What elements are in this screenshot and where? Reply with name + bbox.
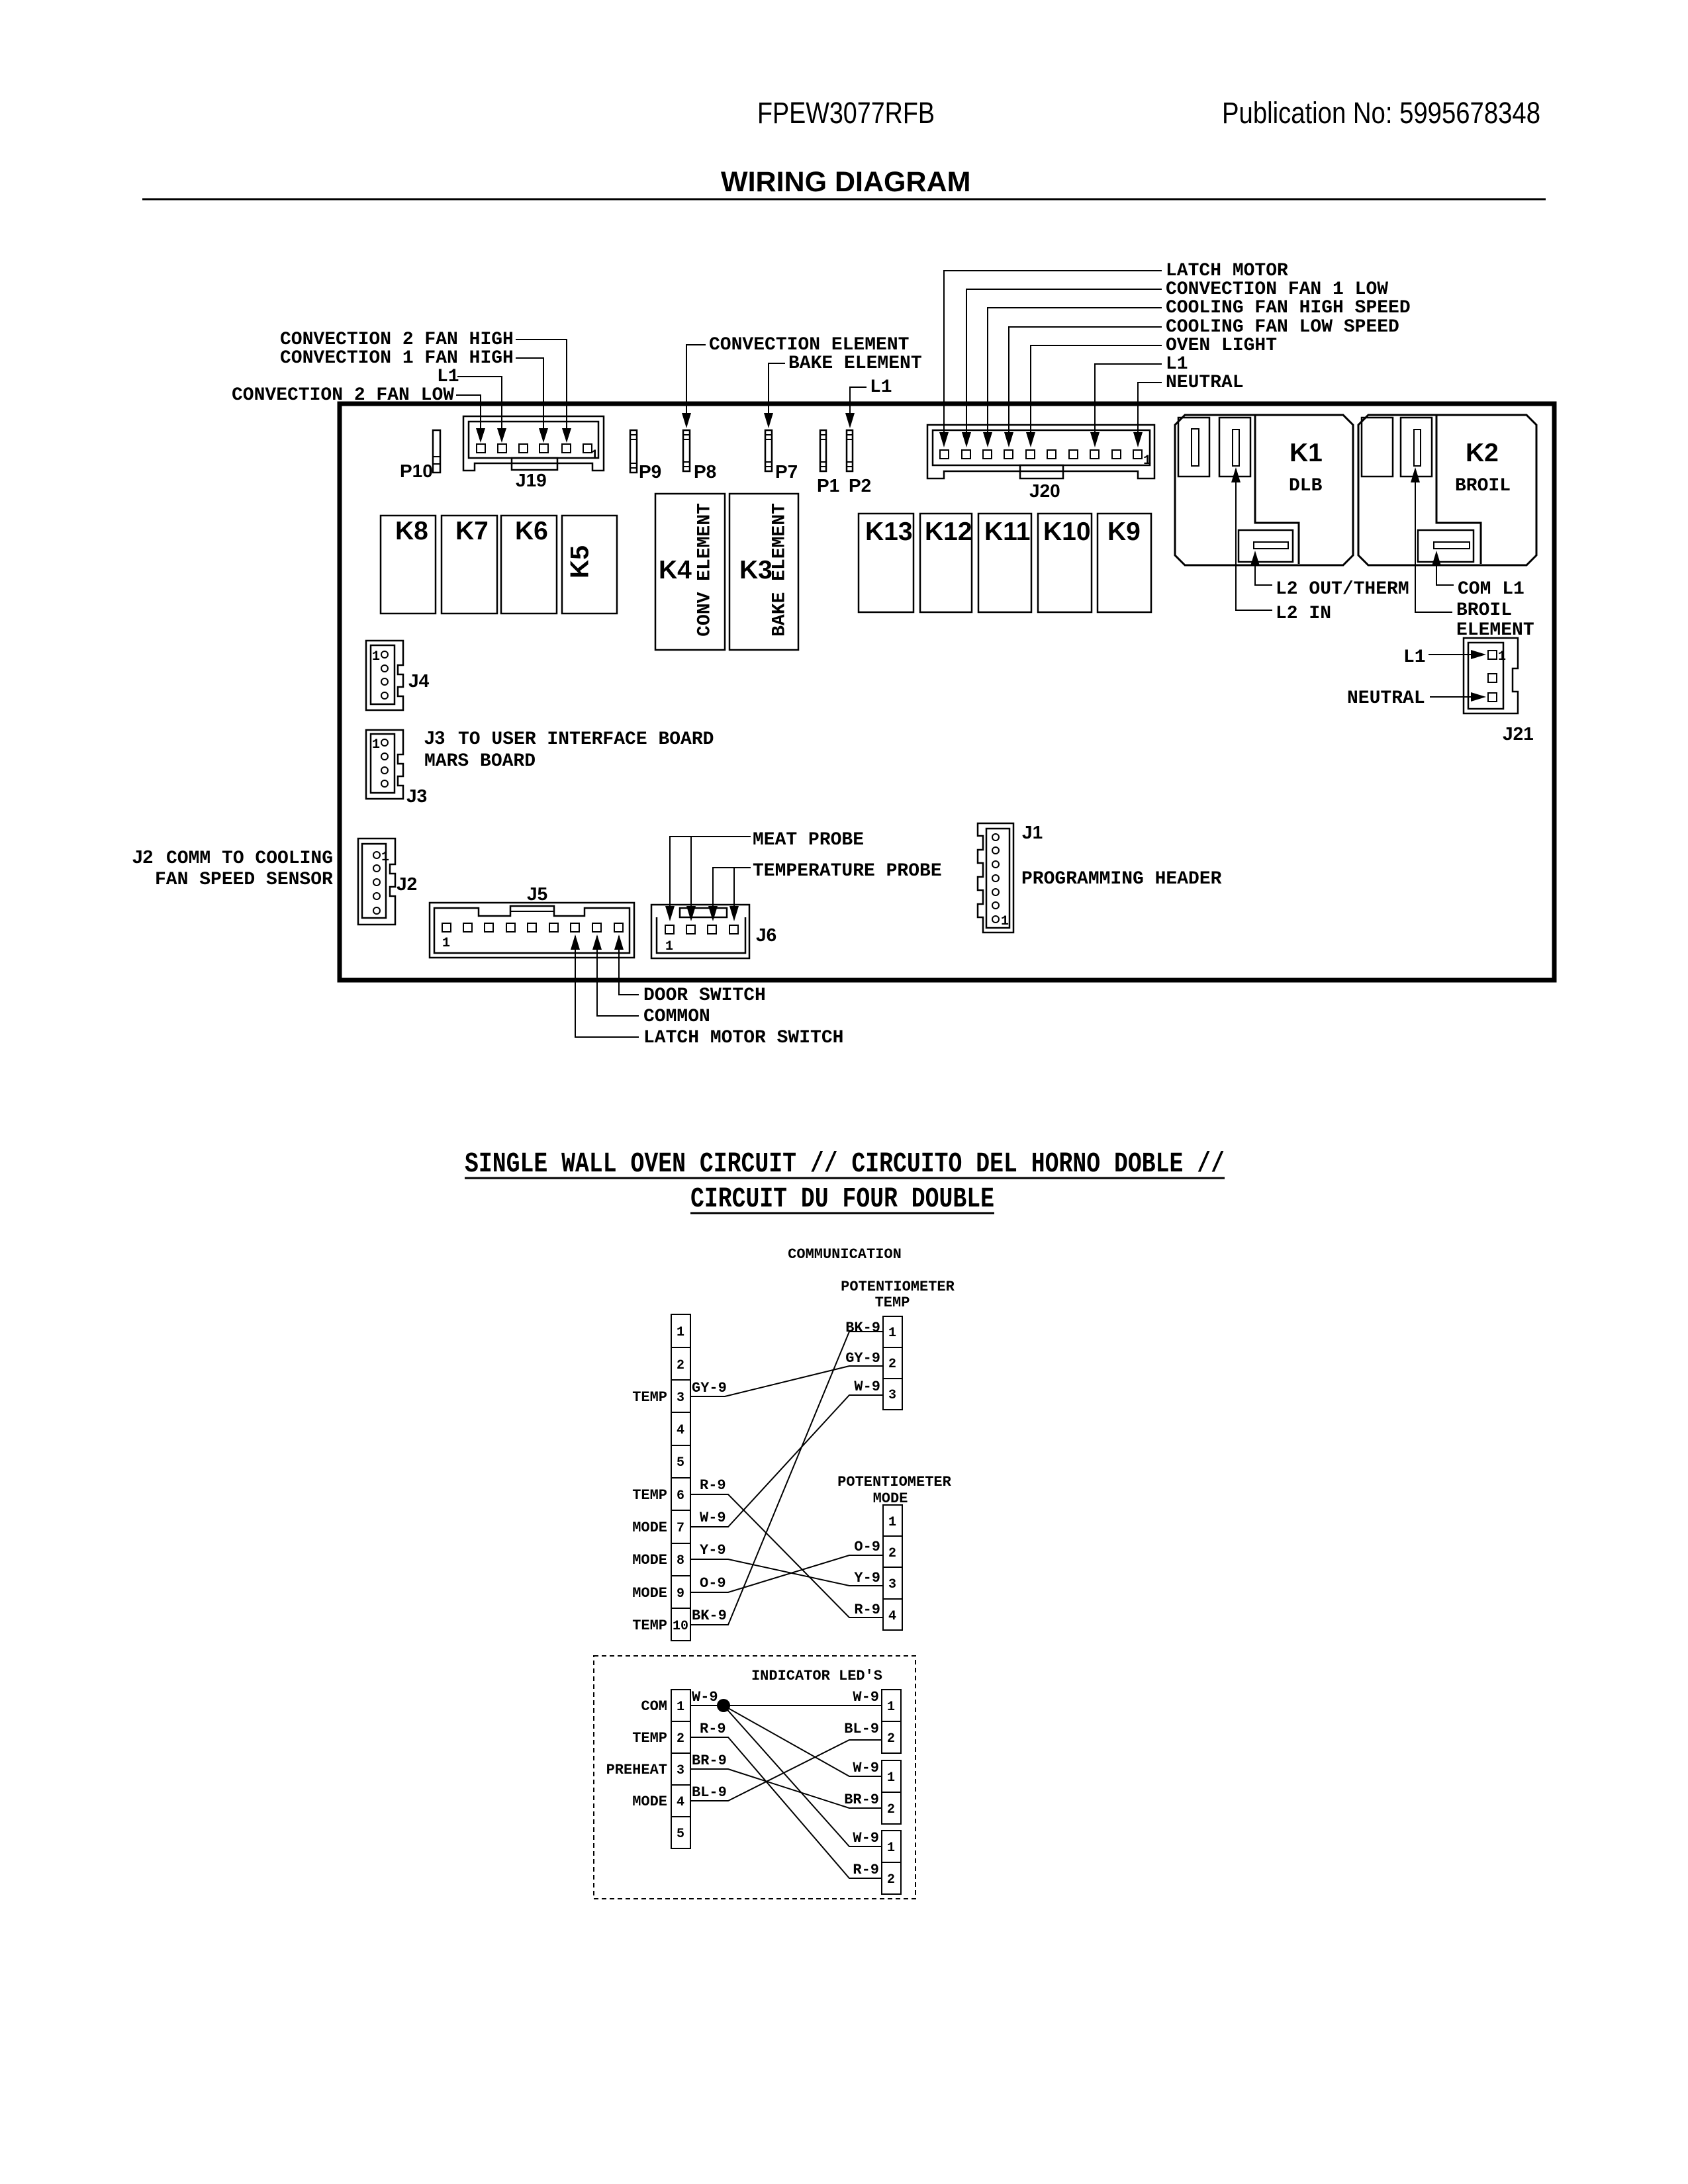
svg-text:2: 2 <box>887 1802 895 1817</box>
svg-text:R-9: R-9 <box>700 1477 726 1494</box>
svg-text:3: 3 <box>888 1388 896 1403</box>
label COM L1 <box>1432 551 1524 600</box>
svg-text:2: 2 <box>677 1731 684 1747</box>
svg-text:1: 1 <box>665 939 673 954</box>
svg-text:K3: K3 <box>739 556 773 584</box>
relay K3 <box>729 494 798 650</box>
connector LED strip A <box>882 1690 901 1753</box>
wire GY-9 pin3 to POT TEMP 2 <box>690 1350 883 1396</box>
label NEUTRAL (J21) <box>1347 688 1486 709</box>
relay K10 <box>1038 514 1092 612</box>
svg-text:K5: K5 <box>566 545 594 578</box>
svg-text:5: 5 <box>677 1455 684 1471</box>
svg-text:J2: J2 <box>132 846 153 867</box>
svg-text:NEUTRAL: NEUTRAL <box>1347 688 1425 709</box>
svg-text:J3: J3 <box>424 727 445 748</box>
main control board outline <box>340 404 1554 980</box>
wire to P8 <box>686 345 706 414</box>
relay K9 <box>1098 514 1151 612</box>
LED left pin function labels <box>606 1698 667 1810</box>
svg-text:J4: J4 <box>408 670 430 691</box>
svg-text:MEAT PROBE: MEAT PROBE <box>753 830 864 850</box>
svg-text:CONVECTION FAN 1 LOW: CONVECTION FAN 1 LOW <box>1166 279 1388 300</box>
relay K8 <box>381 516 436 614</box>
svg-text:BL-9: BL-9 <box>844 1721 879 1737</box>
svg-text:Y-9: Y-9 <box>854 1570 880 1586</box>
svg-text:L1: L1 <box>1403 647 1426 668</box>
label TEMPERATURE PROBE <box>708 861 942 921</box>
section title line 1 <box>465 1148 1225 1180</box>
relay K13 <box>859 514 914 612</box>
svg-text:L1: L1 <box>870 377 892 398</box>
connector POT MODE strip <box>883 1505 902 1630</box>
relay K5 <box>562 516 617 614</box>
label J2 COMM TO COOLING FAN SPEED SENSOR <box>132 846 333 890</box>
wire W-9 COM1 to A1 B1 C1 with junction <box>690 1689 882 1846</box>
svg-text:5: 5 <box>677 1827 684 1842</box>
svg-text:COOLING FAN LOW SPEED: COOLING FAN LOW SPEED <box>1166 317 1399 338</box>
connector LED left strip <box>671 1690 690 1848</box>
svg-text:W-9: W-9 <box>853 1760 879 1776</box>
wire to J19 pin 5 <box>516 340 567 429</box>
label BAKE ELEMENT <box>764 353 922 428</box>
connector P1 <box>817 430 839 496</box>
svg-text:K1: K1 <box>1289 439 1323 467</box>
svg-text:1: 1 <box>372 649 380 664</box>
svg-text:2: 2 <box>677 1358 684 1373</box>
svg-text:1: 1 <box>381 850 389 865</box>
wire to J20 pin 5 <box>1031 345 1162 433</box>
label CONVECTION ELEMENT <box>682 335 909 428</box>
svg-text:COOLING FAN HIGH SPEED: COOLING FAN HIGH SPEED <box>1166 298 1411 318</box>
svg-text:J6: J6 <box>756 925 776 945</box>
svg-text:GY-9: GY-9 <box>845 1350 880 1367</box>
connector J1 <box>978 822 1043 933</box>
wire BL-9 MODE4 to A2 <box>690 1721 882 1801</box>
svg-text:R-9: R-9 <box>700 1721 726 1737</box>
relay K6 <box>501 516 557 614</box>
svg-text:BK-9: BK-9 <box>692 1608 727 1624</box>
svg-text:PROGRAMMING HEADER: PROGRAMMING HEADER <box>1021 869 1222 889</box>
wire BR-9 PREHEAT3 to B2 <box>690 1752 882 1808</box>
svg-text:COMMUNICATION: COMMUNICATION <box>788 1246 902 1263</box>
svg-text:BR-9: BR-9 <box>844 1792 879 1808</box>
svg-text:P8: P8 <box>694 461 716 482</box>
connector J6 <box>651 905 776 958</box>
svg-text:Publication No: 5995678348: Publication No: 5995678348 <box>1222 96 1540 130</box>
section title line 2 <box>690 1183 994 1215</box>
svg-text:W-9: W-9 <box>853 1830 879 1846</box>
svg-text:CONVECTION ELEMENT: CONVECTION ELEMENT <box>709 335 909 355</box>
svg-text:BROIL: BROIL <box>1455 476 1511 496</box>
relay K12 <box>920 514 972 612</box>
wire to J20 pin 3 <box>988 308 1162 433</box>
wire to P7 <box>769 363 785 414</box>
svg-text:P7: P7 <box>775 461 798 482</box>
label NEUTRAL <box>1133 373 1244 447</box>
svg-text:MARS BOARD: MARS BOARD <box>424 751 536 772</box>
K1 contact box <box>1239 530 1293 562</box>
connector J21 <box>1464 638 1534 744</box>
svg-text:BAKE ELEMENT: BAKE ELEMENT <box>788 353 922 374</box>
wire to P2 <box>850 387 867 414</box>
svg-text:INDICATOR LED'S: INDICATOR LED'S <box>751 1668 882 1684</box>
relay K1 body <box>1175 415 1353 565</box>
label L1 (J19 pin 2) <box>437 367 506 443</box>
svg-text:W-9: W-9 <box>853 1689 879 1706</box>
svg-text:J2: J2 <box>397 874 417 894</box>
K2 terminal 2 <box>1401 418 1432 477</box>
svg-text:COMM TO COOLING: COMM TO COOLING <box>166 848 333 869</box>
svg-text:J1: J1 <box>1022 822 1043 842</box>
svg-text:FPEW3077RFB: FPEW3077RFB <box>757 96 935 130</box>
wire to J20 pin 2 <box>966 289 1162 433</box>
label DOOR SWITCH <box>614 934 766 1006</box>
svg-text:BROIL: BROIL <box>1456 600 1512 621</box>
svg-text:LATCH MOTOR: LATCH MOTOR <box>1166 261 1288 281</box>
label L2 IN <box>1231 467 1331 624</box>
svg-text:OVEN LIGHT: OVEN LIGHT <box>1166 336 1277 356</box>
connector P10 <box>400 430 440 481</box>
wire to J20 pin 4 <box>1009 327 1162 433</box>
svg-text:K6: K6 <box>515 517 548 545</box>
label COMMON <box>592 934 710 1027</box>
svg-text:1: 1 <box>1498 649 1506 664</box>
connector P7 <box>765 430 798 482</box>
svg-text:2: 2 <box>888 1357 896 1372</box>
label COOLING FAN HIGH SPEED <box>983 298 1411 447</box>
connector J2 <box>358 839 417 925</box>
svg-text:L1: L1 <box>437 367 459 387</box>
connector J4 <box>366 641 430 710</box>
svg-text:10: 10 <box>673 1619 688 1634</box>
svg-text:1: 1 <box>887 1770 895 1786</box>
wire Y-9 pin8 to POT MODE 3 <box>690 1542 883 1586</box>
svg-text:W-9: W-9 <box>700 1510 726 1526</box>
label CONVECTION 1 FAN HIGH <box>280 348 548 443</box>
svg-text:R-9: R-9 <box>853 1862 879 1878</box>
svg-text:COM L1: COM L1 <box>1458 579 1524 600</box>
label OVEN LIGHT <box>1026 336 1277 447</box>
INDICATOR LED'S dashed box <box>594 1656 915 1899</box>
svg-text:FAN SPEED SENSOR: FAN SPEED SENSOR <box>155 870 333 890</box>
connector P9 <box>630 430 661 482</box>
svg-text:P1: P1 <box>817 475 839 496</box>
svg-text:6: 6 <box>677 1488 684 1504</box>
svg-text:BL-9: BL-9 <box>692 1784 727 1801</box>
svg-text:J20: J20 <box>1029 480 1060 501</box>
K2 terminal 1 <box>1362 418 1393 477</box>
svg-text:K13: K13 <box>865 518 913 546</box>
svg-text:O-9: O-9 <box>854 1539 880 1555</box>
svg-text:J19: J19 <box>516 470 547 490</box>
svg-text:Y-9: Y-9 <box>700 1542 726 1559</box>
svg-text:1: 1 <box>677 1700 684 1715</box>
svg-text:K12: K12 <box>925 518 972 546</box>
svg-text:1: 1 <box>1001 914 1009 929</box>
svg-text:CONVECTION 2 FAN LOW: CONVECTION 2 FAN LOW <box>232 385 454 406</box>
label POTENTIOMETER TEMP <box>841 1279 955 1311</box>
wire W-9 pin7 to POT TEMP 3 <box>690 1379 883 1527</box>
svg-text:L1: L1 <box>1166 354 1188 375</box>
svg-text:R-9: R-9 <box>854 1602 880 1618</box>
svg-text:1: 1 <box>372 737 380 752</box>
label COOLING FAN LOW SPEED <box>1004 317 1399 447</box>
svg-text:MODE: MODE <box>632 1552 667 1569</box>
svg-text:GY-9: GY-9 <box>692 1380 727 1396</box>
svg-text:CONVECTION 2 FAN HIGH: CONVECTION 2 FAN HIGH <box>280 330 514 350</box>
connector LED strip C <box>882 1831 901 1894</box>
svg-text:K11: K11 <box>984 518 1030 546</box>
svg-text:W-9: W-9 <box>692 1689 718 1706</box>
svg-text:2: 2 <box>888 1546 896 1561</box>
svg-text:3: 3 <box>677 1763 684 1778</box>
svg-text:P2: P2 <box>849 475 871 496</box>
svg-text:WIRING DIAGRAM: WIRING DIAGRAM <box>721 166 970 198</box>
wire to J19 pin 4 <box>516 358 543 429</box>
label L2 OUT/THERM <box>1250 551 1409 600</box>
svg-text:2: 2 <box>887 1731 895 1747</box>
svg-text:4: 4 <box>677 1423 684 1438</box>
label L1 (J20 pin 8) <box>1090 354 1188 447</box>
svg-text:3: 3 <box>888 1577 896 1592</box>
svg-text:TEMP: TEMP <box>632 1617 667 1634</box>
wire to J19 pin 2 <box>457 377 502 429</box>
svg-text:P9: P9 <box>639 461 661 482</box>
svg-text:4: 4 <box>677 1795 684 1810</box>
wire to J20 pin 8 <box>1095 364 1162 433</box>
svg-text:2: 2 <box>887 1872 895 1888</box>
svg-text:CIRCUIT DU FOUR DOUBLE: CIRCUIT DU FOUR DOUBLE <box>690 1183 994 1215</box>
connector J3 <box>366 730 427 806</box>
K2 contact box <box>1418 530 1474 562</box>
label CONVECTION 2 FAN LOW <box>232 385 485 443</box>
connector LED strip B <box>882 1760 901 1824</box>
label L1 (J21) <box>1403 647 1486 668</box>
label POTENTIOMETER MODE <box>837 1474 951 1507</box>
svg-text:BK-9: BK-9 <box>845 1320 880 1336</box>
svg-text:MODE: MODE <box>632 1585 667 1602</box>
wire to J20 pin 1 <box>944 271 1162 433</box>
svg-text:TO USER INTERFACE BOARD: TO USER INTERFACE BOARD <box>458 729 714 750</box>
wire R-9 pin6 to POT MODE 4 <box>690 1477 883 1618</box>
relay K2 body <box>1358 415 1536 565</box>
connector J19 <box>463 416 604 490</box>
svg-text:J21: J21 <box>1503 723 1534 744</box>
svg-text:9: 9 <box>677 1586 684 1602</box>
svg-text:LATCH MOTOR SWITCH: LATCH MOTOR SWITCH <box>643 1028 843 1048</box>
connector P2 <box>847 430 871 496</box>
svg-text:O-9: O-9 <box>700 1575 726 1592</box>
svg-text:1: 1 <box>888 1326 896 1341</box>
svg-text:8: 8 <box>677 1553 684 1569</box>
svg-text:L2 IN: L2 IN <box>1276 604 1331 624</box>
svg-text:MODE: MODE <box>632 1794 667 1810</box>
connector COMM left strip <box>671 1314 690 1641</box>
svg-text:BAKE ELEMENT: BAKE ELEMENT <box>770 503 790 637</box>
connector P8 <box>683 430 716 482</box>
svg-text:PREHEAT: PREHEAT <box>606 1762 667 1778</box>
wire to J20 pin 10 <box>1138 383 1162 433</box>
junction node <box>717 1699 730 1712</box>
label BROIL ELEMENT <box>1411 467 1534 641</box>
svg-text:W-9: W-9 <box>854 1379 880 1395</box>
K1 terminal 1 <box>1178 418 1209 477</box>
svg-text:1: 1 <box>887 1700 895 1715</box>
connector J20 <box>927 425 1154 501</box>
label LATCH MOTOR <box>939 261 1288 447</box>
svg-text:L2 OUT/THERM: L2 OUT/THERM <box>1276 579 1409 600</box>
svg-text:CONVECTION 1 FAN HIGH: CONVECTION 1 FAN HIGH <box>280 348 514 369</box>
svg-text:K10: K10 <box>1043 518 1091 546</box>
label J3 TO USER INTERFACE BOARD <box>424 727 714 772</box>
svg-text:1: 1 <box>677 1325 684 1340</box>
relay K11 <box>978 514 1031 612</box>
svg-text:3: 3 <box>677 1390 684 1406</box>
svg-text:1: 1 <box>442 936 450 951</box>
connector J5 <box>430 884 634 958</box>
wire to J19 pin 1 <box>456 395 481 429</box>
svg-text:4: 4 <box>888 1609 896 1624</box>
COMM left pin function labels <box>632 1389 667 1634</box>
svg-text:K4: K4 <box>659 556 692 584</box>
svg-text:K8: K8 <box>395 517 428 545</box>
svg-text:DLB: DLB <box>1289 476 1323 496</box>
svg-text:DOOR SWITCH: DOOR SWITCH <box>643 985 766 1006</box>
svg-text:CONV ELEMENT: CONV ELEMENT <box>695 503 716 637</box>
svg-text:TEMPERATURE PROBE: TEMPERATURE PROBE <box>753 861 942 882</box>
svg-text:TEMP: TEMP <box>632 1730 667 1747</box>
title rule <box>142 199 1546 201</box>
svg-text:COM: COM <box>641 1698 667 1715</box>
svg-text:J3: J3 <box>406 786 427 806</box>
svg-text:NEUTRAL: NEUTRAL <box>1166 373 1244 393</box>
svg-text:1: 1 <box>888 1515 896 1530</box>
wire R-9 TEMP2 to C2 <box>690 1721 882 1878</box>
svg-text:K9: K9 <box>1107 518 1141 546</box>
svg-text:POTENTIOMETER: POTENTIOMETER <box>837 1474 951 1490</box>
svg-text:POTENTIOMETER: POTENTIOMETER <box>841 1279 955 1295</box>
svg-text:K2: K2 <box>1466 439 1499 467</box>
relay K7 <box>442 516 497 614</box>
svg-text:TEMP: TEMP <box>632 1389 667 1406</box>
wire BK-9 pin10 to POT TEMP 1 <box>690 1320 883 1625</box>
label CONVECTION FAN 1 LOW <box>962 279 1388 447</box>
wire O-9 pin9 to POT MODE 2 <box>690 1539 883 1592</box>
svg-text:7: 7 <box>677 1521 684 1536</box>
label L1 (P2) <box>845 377 892 428</box>
svg-text:1: 1 <box>1143 453 1151 469</box>
svg-text:TEMP: TEMP <box>632 1487 667 1504</box>
svg-text:BR-9: BR-9 <box>692 1752 727 1769</box>
svg-text:J5: J5 <box>527 884 547 904</box>
svg-text:1: 1 <box>887 1841 895 1856</box>
svg-text:P10: P10 <box>400 461 433 481</box>
label LATCH MOTOR SWITCH <box>571 934 843 1048</box>
label CONVECTION 2 FAN HIGH <box>280 330 571 443</box>
svg-text:SINGLE WALL OVEN CIRCUIT // CI: SINGLE WALL OVEN CIRCUIT // CIRCUITO DEL… <box>465 1148 1225 1180</box>
connector POT TEMP strip <box>883 1316 902 1410</box>
svg-text:MODE: MODE <box>632 1520 667 1536</box>
relay K4 <box>655 494 725 650</box>
svg-text:COMMON: COMMON <box>643 1007 710 1027</box>
svg-text:1: 1 <box>590 448 598 463</box>
K1 terminal 2 <box>1219 418 1250 477</box>
svg-text:K7: K7 <box>455 517 489 545</box>
label MEAT PROBE <box>665 830 864 921</box>
svg-text:TEMP: TEMP <box>875 1295 910 1311</box>
